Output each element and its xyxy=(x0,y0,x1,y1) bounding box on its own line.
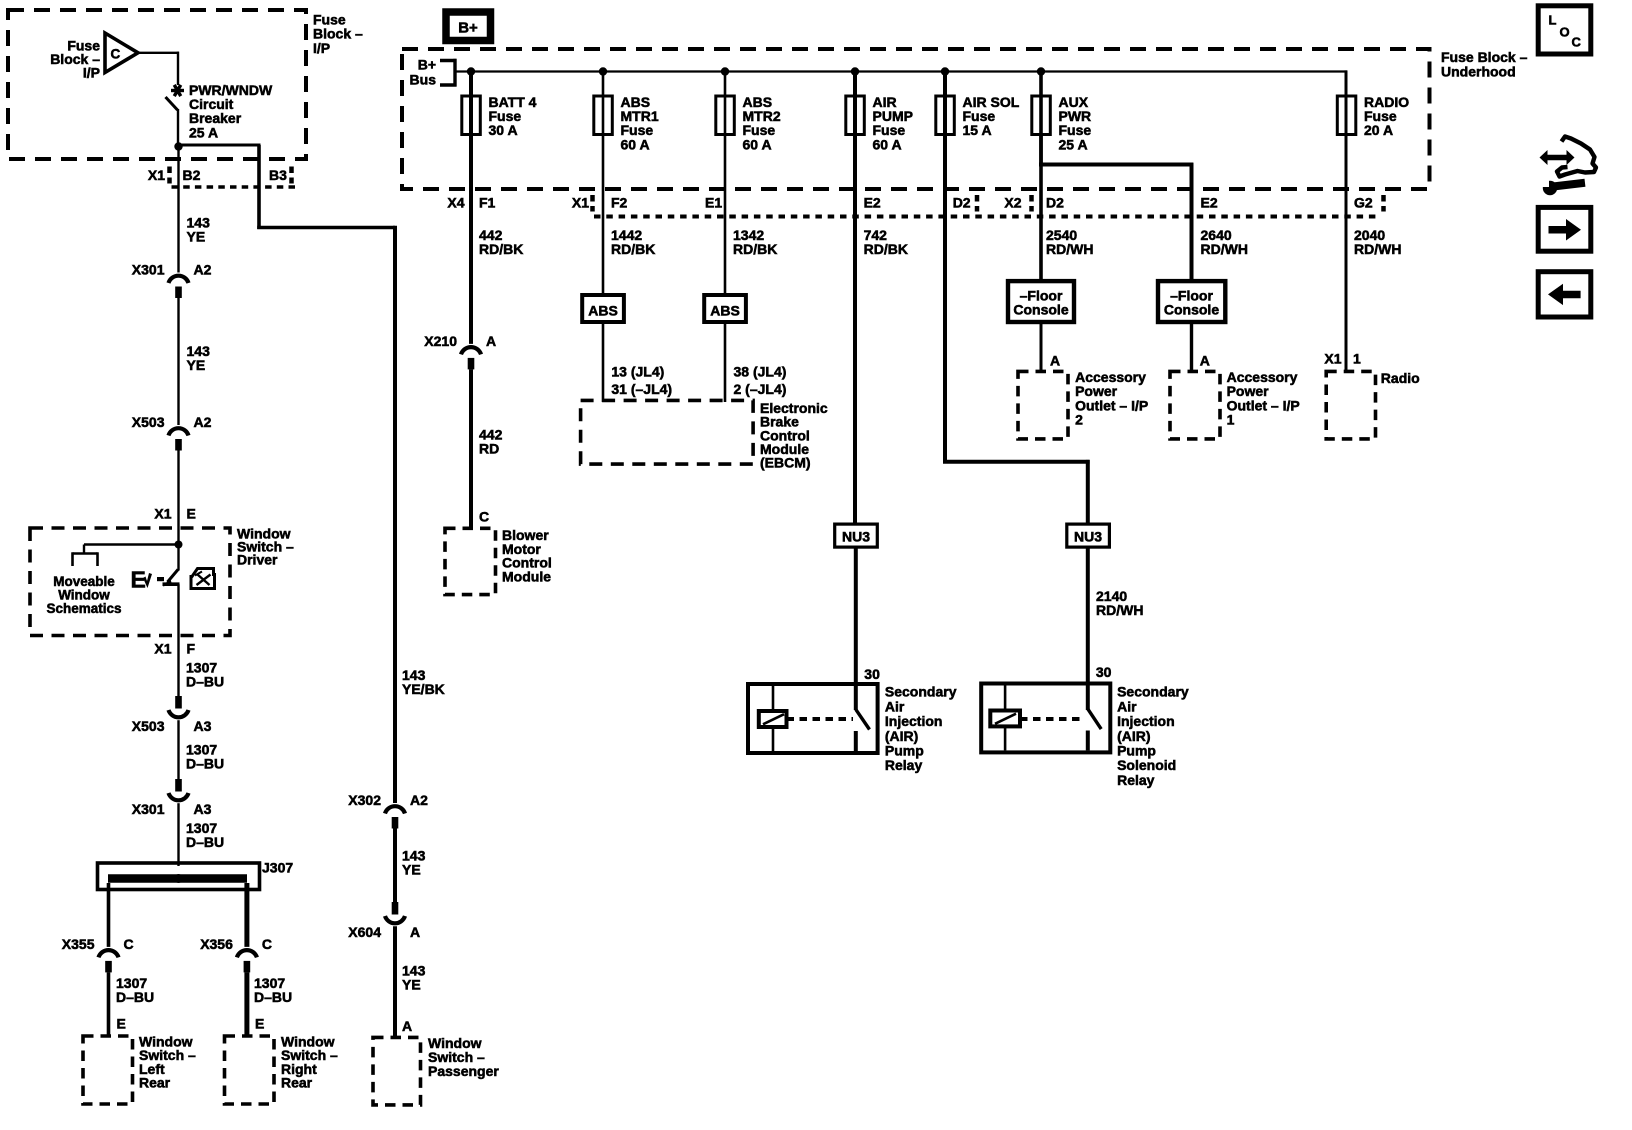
fuse ABS MTR2 60A xyxy=(716,94,781,153)
fuse AUX PWR 25A xyxy=(1032,94,1092,153)
svg-text:E: E xyxy=(131,567,146,593)
svg-text:A: A xyxy=(410,924,420,940)
svg-text:X503: X503 xyxy=(132,718,165,734)
svg-text:25 A: 25 A xyxy=(189,124,218,140)
svg-text:E1: E1 xyxy=(705,195,722,211)
svg-text:B3: B3 xyxy=(269,167,287,183)
svg-text:Secondary: Secondary xyxy=(1117,684,1189,700)
svg-text:G2: G2 xyxy=(1354,195,1373,211)
svg-text:D–BU: D–BU xyxy=(186,834,224,850)
svg-text:C: C xyxy=(124,936,134,952)
wire 442 RD/BK xyxy=(469,189,473,344)
Floor Console in-line connector 1 xyxy=(1008,281,1074,322)
svg-text:I/P: I/P xyxy=(313,40,330,56)
wire 143 YE (B2 down) xyxy=(177,147,179,273)
svg-text:A: A xyxy=(1050,353,1060,369)
svg-text:(AIR): (AIR) xyxy=(1117,728,1150,744)
svg-text:Console: Console xyxy=(1013,301,1068,317)
svg-text:X1: X1 xyxy=(1324,351,1341,367)
wire radio fuse tap xyxy=(1345,94,1348,189)
wire 1307 D-BU xyxy=(177,720,179,779)
wire 14xx RD/BK to ABS connector xyxy=(602,189,605,295)
ABS in-line connector at x=725 xyxy=(704,295,746,322)
wire 143 YE/BK passenger feed xyxy=(393,226,397,803)
svg-text:A2: A2 xyxy=(410,792,428,808)
splice block J307 xyxy=(98,860,294,890)
svg-text:B+: B+ xyxy=(418,57,436,73)
svg-text:C: C xyxy=(1572,35,1582,50)
svg-text:RD/WH: RD/WH xyxy=(1354,241,1401,257)
svg-text:25 A: 25 A xyxy=(1059,136,1088,152)
Window Switch - Driver dashed box xyxy=(30,528,230,636)
Electronic Brake Control Module dashed box xyxy=(581,400,754,464)
wire node to switch blade xyxy=(177,545,179,571)
svg-text:C: C xyxy=(479,509,489,525)
wire breaker to node xyxy=(177,109,179,148)
svg-text:Secondary: Secondary xyxy=(885,684,957,700)
svg-text:Radio: Radio xyxy=(1381,370,1420,386)
svg-text:Rear: Rear xyxy=(281,1075,313,1091)
fuse AIR PUMP 60A xyxy=(846,94,913,153)
svg-text:I/P: I/P xyxy=(83,65,100,81)
svg-text:RD: RD xyxy=(479,440,499,456)
svg-text:F2: F2 xyxy=(611,195,628,211)
svg-text:Pump: Pump xyxy=(1117,743,1156,759)
svg-text:E: E xyxy=(117,1016,126,1032)
wire bus tap at x=945 xyxy=(943,72,947,190)
wire leaving driver switch xyxy=(177,584,179,696)
wire to outlet 2 xyxy=(1040,322,1043,373)
svg-text:RD/BK: RD/BK xyxy=(733,241,777,257)
Fuse Block - Underhood dashed enclosure xyxy=(402,49,1430,189)
wire 742 RD/BK xyxy=(853,189,857,524)
wire triangle to breaker xyxy=(136,52,179,54)
Window Switch - Right Rear dashed box xyxy=(225,1036,275,1104)
svg-text:30: 30 xyxy=(1096,664,1112,680)
svg-text:1: 1 xyxy=(1227,412,1235,428)
svg-text:X503: X503 xyxy=(132,414,165,430)
svg-text:60 A: 60 A xyxy=(873,136,902,152)
wire to outlet 1 xyxy=(1190,322,1193,373)
svg-text:B+: B+ xyxy=(458,20,478,37)
fuse ABS MTR1 60A xyxy=(594,94,659,153)
forward arrow icon box xyxy=(1538,207,1591,251)
svg-text:D–BU: D–BU xyxy=(116,989,154,1005)
svg-text:30 A: 30 A xyxy=(489,122,518,138)
svg-text:D–BU: D–BU xyxy=(186,756,224,772)
svg-text:A2: A2 xyxy=(194,414,212,430)
svg-text:X4: X4 xyxy=(447,195,464,211)
svg-text:Bus: Bus xyxy=(410,72,437,88)
connector X302 pin A2 xyxy=(348,792,428,829)
fuse AIR SOL 15A xyxy=(936,94,1020,138)
driver window switch contact (Ev) xyxy=(131,567,180,593)
connector X355 pin C xyxy=(62,936,134,973)
Radio dashed box xyxy=(1326,371,1375,439)
Accessory Power Outlet - I/P 2 dashed box xyxy=(1018,371,1068,439)
wire bus tap at x=855 xyxy=(853,72,857,190)
B+ Bus bracket xyxy=(410,57,457,88)
wire 143 YE to passenger switch xyxy=(393,926,397,1038)
connector X210 pin A xyxy=(424,333,496,370)
svg-text:E: E xyxy=(255,1016,264,1032)
svg-text:X2: X2 xyxy=(1004,195,1021,211)
svg-text:Injection: Injection xyxy=(885,713,943,729)
connector X604 pin A xyxy=(348,902,420,940)
connector X503 pin A3 xyxy=(132,696,212,734)
svg-text:X1: X1 xyxy=(148,167,165,183)
wire 1307 D-BU to left rear switch xyxy=(107,972,111,1037)
svg-text:F: F xyxy=(187,641,196,657)
svg-text:A3: A3 xyxy=(194,718,212,734)
LOC icon box xyxy=(1538,6,1591,54)
Window Switch - Passenger dashed box xyxy=(373,1037,421,1105)
triangle feed symbol C (Fuse Block - I/P) xyxy=(105,33,138,73)
Secondary Air Injection (AIR) Pump Relay xyxy=(748,684,878,753)
svg-text:YE/BK: YE/BK xyxy=(402,681,445,697)
connector X301 pin A2 xyxy=(132,262,212,299)
svg-text:31 (–JL4): 31 (–JL4) xyxy=(611,381,672,397)
B+ bus wire xyxy=(457,70,1348,72)
svg-text:E: E xyxy=(187,506,196,522)
svg-text:O: O xyxy=(1560,24,1570,39)
svg-text:Solenoid: Solenoid xyxy=(1117,757,1176,773)
svg-text:2: 2 xyxy=(1075,412,1083,428)
svg-text:D2: D2 xyxy=(1046,195,1064,211)
wire AIR SOL feed xyxy=(943,189,947,464)
svg-text:2 (–JL4): 2 (–JL4) xyxy=(734,381,787,397)
svg-text:X1: X1 xyxy=(154,641,171,657)
Floor Console in-line connector 2 xyxy=(1158,281,1225,322)
svg-text:(AIR): (AIR) xyxy=(885,728,918,744)
svg-text:RD/BK: RD/BK xyxy=(864,241,908,257)
svg-text:Air: Air xyxy=(1117,698,1137,714)
svg-text:A2: A2 xyxy=(194,262,212,278)
node: breaker output junction xyxy=(174,142,182,150)
fuse RADIO 20A xyxy=(1337,94,1409,138)
svg-text:L: L xyxy=(1549,13,1557,28)
Fuse Block - I/P dashed enclosure xyxy=(8,10,306,159)
svg-text:NU3: NU3 xyxy=(842,529,870,545)
svg-text:Outlet – I/P: Outlet – I/P xyxy=(1075,397,1148,413)
svg-text:Rear: Rear xyxy=(139,1075,171,1091)
svg-text:ABS: ABS xyxy=(710,303,740,319)
svg-text:YE: YE xyxy=(187,229,206,245)
connector NU3 (right) xyxy=(1067,524,1110,547)
wire 2540 RD/WH xyxy=(1039,189,1043,281)
circuit breaker PWR/WNDW 25A xyxy=(166,85,185,110)
wire 1307 D-BU right branch xyxy=(244,883,249,947)
svg-text:YE: YE xyxy=(402,977,421,993)
svg-text:X301: X301 xyxy=(132,262,165,278)
svg-text:ABS: ABS xyxy=(588,303,618,319)
svg-text:X604: X604 xyxy=(348,924,381,940)
svg-text:Underhood: Underhood xyxy=(1441,63,1516,79)
svg-text:Driver: Driver xyxy=(237,552,278,568)
svg-text:D–BU: D–BU xyxy=(186,674,224,690)
svg-text:RD/BK: RD/BK xyxy=(479,241,523,257)
wire 1307 D-BU left branch xyxy=(107,883,111,947)
wire 1307 D-BU to right rear switch xyxy=(244,972,249,1037)
wire bus tap at x=725 xyxy=(724,72,727,190)
svg-text:Module: Module xyxy=(502,568,551,584)
svg-text:X1: X1 xyxy=(154,506,171,522)
svg-text:Console: Console xyxy=(1164,301,1219,317)
svg-text:C: C xyxy=(111,47,121,62)
svg-text:A: A xyxy=(1200,353,1210,369)
connector strip X1 B2/B3 xyxy=(148,167,297,188)
svg-text:YE: YE xyxy=(402,862,421,878)
svg-text:E2: E2 xyxy=(1201,195,1218,211)
svg-text:60 A: 60 A xyxy=(743,136,772,152)
node inside driver switch xyxy=(175,541,183,549)
svg-text:F1: F1 xyxy=(479,195,496,211)
svg-text:RD/WH: RD/WH xyxy=(1201,241,1248,257)
svg-text:X355: X355 xyxy=(62,936,95,952)
svg-text:30: 30 xyxy=(864,666,880,682)
svg-text:Relay: Relay xyxy=(885,757,923,773)
window icon xyxy=(191,569,215,589)
svg-text:D–BU: D–BU xyxy=(254,989,292,1005)
svg-text:J307: J307 xyxy=(262,860,293,876)
svg-text:RD/WH: RD/WH xyxy=(1046,241,1093,257)
wire bus tap at x=471 xyxy=(469,72,473,190)
connector X503 pin A2 xyxy=(132,414,212,451)
Accessory Power Outlet - I/P 1 dashed box xyxy=(1170,371,1220,439)
branch wire to E2 (2640) xyxy=(1039,135,1043,167)
svg-text:D2: D2 xyxy=(953,195,971,211)
svg-text:Pump: Pump xyxy=(885,743,924,759)
svg-text:X302: X302 xyxy=(348,792,381,808)
svg-text:13 (JL4): 13 (JL4) xyxy=(611,364,664,380)
svg-text:Schematics: Schematics xyxy=(46,601,121,616)
wire node to B3 branch xyxy=(179,144,261,147)
wire 143 YE into driver switch xyxy=(177,451,179,546)
svg-text:A3: A3 xyxy=(194,801,212,817)
wire ABS to EBCM xyxy=(724,322,727,402)
svg-text:A: A xyxy=(486,333,496,349)
connector strip row (underhood) xyxy=(447,195,1383,217)
wire 442 RD xyxy=(469,369,473,529)
svg-text:Passenger: Passenger xyxy=(428,1063,499,1079)
diagnostic wrench/arrows icon xyxy=(1540,137,1597,196)
svg-text:15 A: 15 A xyxy=(963,122,992,138)
svg-text:X1: X1 xyxy=(572,195,589,211)
svg-text:X356: X356 xyxy=(200,936,233,952)
svg-text:60 A: 60 A xyxy=(621,136,650,152)
B+ terminal xyxy=(446,12,491,41)
svg-text:RD/WH: RD/WH xyxy=(1096,602,1143,618)
wire NU3 to relay pin 30 xyxy=(854,547,858,710)
Blower Motor Control Module dashed box xyxy=(445,528,496,594)
connector X356 pin C xyxy=(200,936,272,973)
wire 2140 RD/WH xyxy=(1086,547,1090,710)
connector X301 pin A3 xyxy=(132,779,212,817)
moveable window bracket symbol xyxy=(73,545,98,567)
svg-text:Air: Air xyxy=(885,698,905,714)
svg-text:YE: YE xyxy=(187,357,206,373)
ABS in-line connector at x=603 xyxy=(582,295,624,322)
wire bus tap at x=603 xyxy=(602,72,605,190)
svg-text:A: A xyxy=(402,1018,412,1034)
fuse BATT 4 30A xyxy=(462,94,537,138)
svg-text:Outlet – I/P: Outlet – I/P xyxy=(1227,397,1300,413)
back arrow icon box xyxy=(1538,272,1591,317)
wire 1307 D-BU to splice xyxy=(177,803,179,866)
svg-text:X210: X210 xyxy=(424,333,457,349)
svg-text:Relay: Relay xyxy=(1117,772,1155,788)
wire 2040 RD/WH xyxy=(1345,189,1348,373)
wire ABS to EBCM xyxy=(602,322,605,402)
wire 143 YE xyxy=(177,298,179,425)
svg-text:NU3: NU3 xyxy=(1074,529,1102,545)
svg-text:1: 1 xyxy=(1353,351,1361,367)
connector NU3 (left) xyxy=(835,524,878,547)
svg-text:(EBCM): (EBCM) xyxy=(760,455,811,471)
wire to moveable window bracket xyxy=(84,543,179,545)
svg-text:B2: B2 xyxy=(183,167,201,183)
svg-text:RD/BK: RD/BK xyxy=(611,241,655,257)
svg-text:C: C xyxy=(262,936,272,952)
svg-text:E2: E2 xyxy=(864,195,881,211)
svg-text:20 A: 20 A xyxy=(1364,122,1393,138)
Secondary Air Injection (AIR) Pump Solenoid Relay xyxy=(981,684,1110,753)
svg-text:X301: X301 xyxy=(132,801,165,817)
wire 14xx RD/BK to ABS connector xyxy=(724,189,727,295)
svg-text:38 (JL4): 38 (JL4) xyxy=(734,364,787,380)
wire bus tap at x=1041 xyxy=(1039,72,1043,190)
Window Switch - Left Rear dashed box xyxy=(83,1036,133,1104)
svg-text:Injection: Injection xyxy=(1117,713,1175,729)
wire 143 YE xyxy=(393,829,397,903)
